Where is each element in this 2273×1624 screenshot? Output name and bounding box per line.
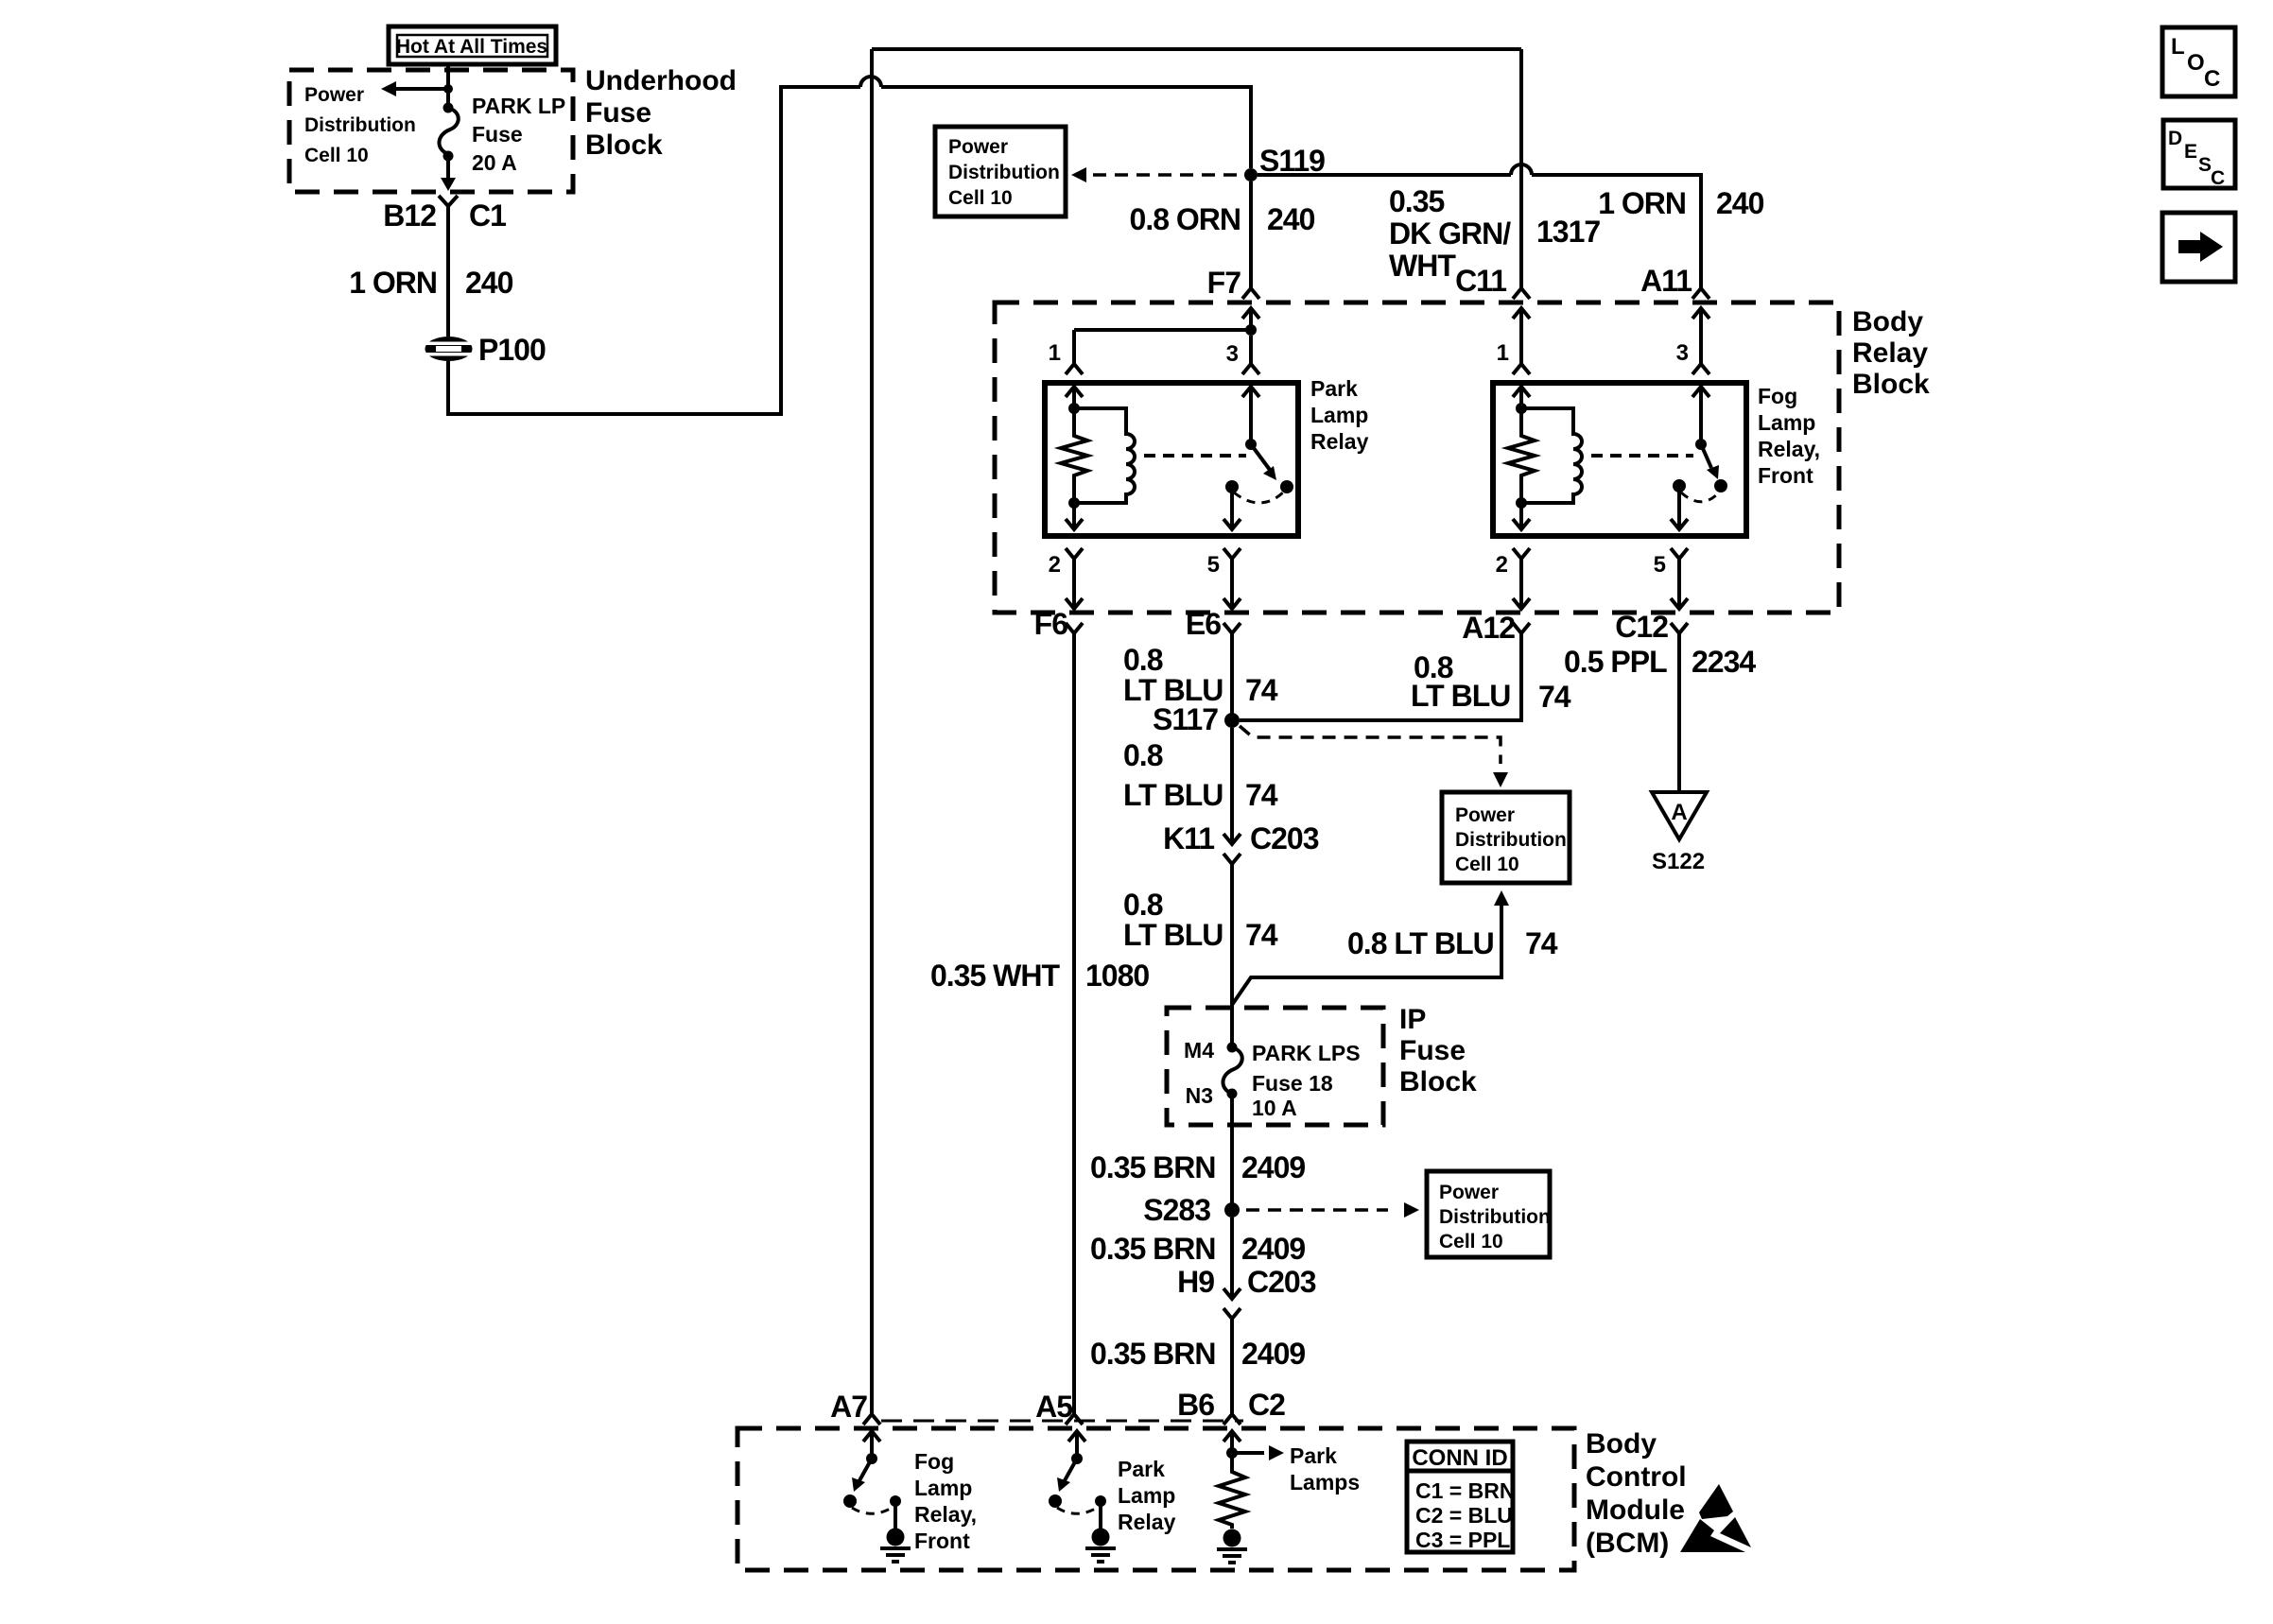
svg-text:Distribution: Distribution <box>1455 829 1567 851</box>
wire B12 to P100 <box>446 206 450 337</box>
label Fog Lamp Relay, Front (BCM) <box>914 1449 977 1553</box>
legend box LOC <box>2162 27 2235 96</box>
svg-text:Front: Front <box>1758 463 1813 488</box>
park relay pin5 node <box>1225 480 1239 493</box>
ground (A5 contact) <box>1085 1529 1116 1563</box>
svg-text:Lamps: Lamps <box>1290 1470 1360 1494</box>
wire pin5 to block edge <box>1223 548 1241 609</box>
svg-text:0.35 BRN: 0.35 BRN <box>1090 1150 1216 1184</box>
svg-text:2409: 2409 <box>1241 1337 1305 1371</box>
wire F7 inside block arrow <box>1242 308 1259 330</box>
svg-text:N3: N3 <box>1186 1083 1213 1108</box>
wire fog pin5 to block edge <box>1671 548 1688 609</box>
connector chevron A11 <box>1692 288 1709 299</box>
park lamps driver (B6/C2) <box>1223 1431 1284 1460</box>
fog relay pin5 node <box>1673 479 1686 492</box>
fog relay coil bottom node <box>1516 497 1527 509</box>
park relay actuation dashed link <box>1144 454 1246 458</box>
wire drop to pin 3 with chevron <box>1242 336 1259 374</box>
svg-text:5: 5 <box>1207 552 1220 578</box>
svg-text:240: 240 <box>1716 186 1764 220</box>
park relay switch arm <box>1251 444 1270 470</box>
svg-text:2: 2 <box>1049 552 1061 578</box>
svg-text:C1: C1 <box>469 199 506 233</box>
wire fog pin2 to block edge <box>1513 548 1530 609</box>
wire fuse output with arrow <box>446 156 450 180</box>
svg-text:Distribution: Distribution <box>1439 1206 1551 1228</box>
svg-text:K11: K11 <box>1163 821 1214 855</box>
node S283 <box>1224 1202 1240 1218</box>
wire C11 into fog pin 1 <box>1513 308 1530 374</box>
svg-text:Fog: Fog <box>1758 384 1797 408</box>
svg-text:240: 240 <box>465 266 513 300</box>
wire hop over A7 line <box>860 77 881 87</box>
svg-text:D: D <box>2168 128 2182 149</box>
svg-text:Lamp: Lamp <box>1758 410 1815 435</box>
svg-text:Hot At All Times: Hot At All Times <box>396 36 547 58</box>
svg-text:Fuse: Fuse <box>585 97 651 129</box>
svg-text:LT BLU: LT BLU <box>1411 679 1510 713</box>
svg-text:Fuse: Fuse <box>472 122 523 147</box>
svg-text:S119: S119 <box>1259 144 1325 178</box>
label Park Lamp Relay <box>1310 376 1369 454</box>
wire S117 down to K11 <box>1223 728 1241 844</box>
IP Fuse Block dashed box <box>1167 1008 1383 1125</box>
fuse PARK LPS Fuse 18 10 A <box>1223 1041 1360 1120</box>
svg-text:B6: B6 <box>1177 1388 1214 1422</box>
fog relay resistor <box>1508 408 1535 503</box>
svg-text:IP: IP <box>1399 1004 1426 1035</box>
svg-text:S283: S283 <box>1143 1193 1210 1227</box>
svg-text:A11: A11 <box>1640 264 1692 298</box>
park relay pin1 arrow inside <box>1066 387 1083 408</box>
fog relay alternate position dashed arc <box>1681 492 1718 502</box>
svg-text:Block: Block <box>585 130 663 161</box>
fog relay coil <box>1521 408 1582 503</box>
svg-text:LT BLU: LT BLU <box>1123 778 1223 812</box>
label IP Fuse Block <box>1399 1004 1477 1097</box>
label Body Control Module (BCM) <box>1586 1428 1687 1559</box>
svg-text:PARK LPS: PARK LPS <box>1252 1041 1361 1065</box>
svg-text:Front: Front <box>914 1529 970 1553</box>
in-line connector C203 chevron (H9) <box>1223 1308 1241 1425</box>
svg-text:2: 2 <box>1496 552 1508 578</box>
wire drop to pin 1 with chevron <box>1066 330 1083 374</box>
svg-text:0.35 BRN: 0.35 BRN <box>1090 1337 1216 1371</box>
svg-text:Distribution: Distribution <box>304 114 416 136</box>
box Power Distribution Cell 10 (top) <box>935 127 1066 216</box>
svg-text:0.8: 0.8 <box>1123 888 1163 922</box>
svg-text:Power: Power <box>304 84 364 106</box>
svg-text:Body: Body <box>1852 306 1923 337</box>
svg-text:Block: Block <box>1852 369 1930 400</box>
svg-text:Park: Park <box>1310 376 1358 401</box>
BCM connector dashed line <box>881 1420 1243 1423</box>
svg-text:S: S <box>2198 154 2212 176</box>
svg-text:1 ORN: 1 ORN <box>349 266 437 300</box>
svg-text:F7: F7 <box>1207 266 1241 300</box>
svg-text:(BCM): (BCM) <box>1586 1528 1669 1559</box>
dashed ref wire S117 to power distribution <box>1240 726 1501 764</box>
label 0.35 DK GRN/ WHT <box>1389 184 1511 283</box>
svg-text:1317: 1317 <box>1536 215 1600 249</box>
svg-text:Block: Block <box>1399 1066 1477 1097</box>
dashed ref arrow S283 to power distribution <box>1246 1208 1388 1212</box>
svg-text:LT BLU: LT BLU <box>1123 918 1223 952</box>
svg-text:C203: C203 <box>1247 1265 1316 1299</box>
wire E6 drop to S117 <box>1223 623 1241 720</box>
svg-text:C203: C203 <box>1250 821 1319 855</box>
svg-text:Fuse 18: Fuse 18 <box>1252 1071 1333 1096</box>
Hot At All Times box <box>389 26 556 64</box>
wire S283 down to H9 <box>1223 1218 1241 1299</box>
svg-text:Body: Body <box>1586 1428 1657 1460</box>
node S119 <box>1244 168 1258 181</box>
svg-text:74: 74 <box>1245 918 1278 952</box>
svg-text:E: E <box>2184 141 2197 163</box>
node S117 <box>1224 713 1240 728</box>
svg-text:0.5 PPL: 0.5 PPL <box>1564 645 1667 679</box>
svg-text:C: C <box>2211 167 2225 189</box>
wire A12 drop to S117 <box>1240 623 1530 720</box>
svg-text:C2 = BLU: C2 = BLU <box>1415 1503 1513 1528</box>
legend box DESC <box>2163 120 2235 189</box>
wire to S119 corner <box>881 87 1251 168</box>
svg-text:1080: 1080 <box>1085 959 1149 993</box>
wire arrow to power distribution <box>391 87 444 91</box>
svg-text:Relay: Relay <box>1118 1510 1176 1534</box>
Body Relay Block dashed box <box>995 302 1839 613</box>
park relay switch pivot <box>1245 439 1257 450</box>
Body Control Module dashed box <box>737 1428 1574 1570</box>
svg-text:Power: Power <box>1455 804 1515 826</box>
CONN ID table <box>1407 1442 1515 1552</box>
svg-text:Underhood: Underhood <box>585 65 737 96</box>
svg-text:2409: 2409 <box>1241 1232 1305 1266</box>
park relay coil <box>1074 408 1135 503</box>
ground (park lamps) <box>1217 1529 1247 1564</box>
svg-text:1: 1 <box>1497 340 1509 366</box>
ESD symbol <box>1680 1484 1751 1552</box>
resistor park lamps load <box>1219 1453 1245 1529</box>
wire top rail <box>872 47 1521 51</box>
fuse PARK LP Fuse 20 A <box>439 94 565 175</box>
svg-text:C2: C2 <box>1248 1388 1285 1422</box>
svg-text:Fog: Fog <box>914 1449 954 1474</box>
svg-text:5: 5 <box>1654 552 1666 578</box>
svg-text:Cell 10: Cell 10 <box>1439 1231 1503 1253</box>
node junction at arrow tap <box>443 84 453 94</box>
svg-text:S117: S117 <box>1153 702 1218 736</box>
svg-text:M4: M4 <box>1184 1038 1214 1063</box>
wire C12 drop to S122 <box>1671 623 1688 792</box>
wire P100 down right and up to S119 <box>448 87 860 414</box>
svg-text:PARK LP: PARK LP <box>472 94 565 118</box>
svg-text:C3 = PPL: C3 = PPL <box>1415 1528 1510 1552</box>
park relay pin3 arrow and common <box>1242 387 1259 440</box>
svg-text:S122: S122 <box>1652 849 1705 874</box>
wire N3 down to S283 <box>1230 1094 1234 1203</box>
svg-text:Park: Park <box>1290 1443 1337 1468</box>
svg-text:0.8: 0.8 <box>1123 738 1163 772</box>
label Underhood Fuse Block <box>585 65 737 161</box>
svg-text:Power: Power <box>948 136 1008 158</box>
park relay alternate position dashed arc <box>1234 492 1283 503</box>
park relay coil top node <box>1068 403 1080 414</box>
svg-text:Cell 10: Cell 10 <box>1455 854 1519 875</box>
fog relay switch contact dot <box>1714 479 1727 492</box>
svg-text:F6: F6 <box>1034 607 1068 641</box>
svg-text:0.35: 0.35 <box>1389 184 1444 218</box>
svg-text:DK GRN/: DK GRN/ <box>1389 216 1511 251</box>
svg-text:Lamp: Lamp <box>914 1476 972 1500</box>
svg-text:Park: Park <box>1118 1457 1165 1481</box>
fog relay actuation dashed link <box>1591 454 1693 458</box>
fog relay pin1 arrow inside <box>1513 387 1530 408</box>
label Power Distribution Cell 10 (underhood) <box>304 84 416 166</box>
svg-text:Distribution: Distribution <box>948 162 1060 183</box>
svg-text:A: A <box>1671 800 1687 825</box>
fog relay pin2 arrow inside <box>1513 503 1530 529</box>
svg-text:C: C <box>2204 66 2220 92</box>
svg-text:Cell 10: Cell 10 <box>948 187 1013 209</box>
wire C11 drop <box>1519 49 1523 288</box>
splice symbol S122 triangle <box>1652 792 1707 874</box>
svg-text:A12: A12 <box>1462 611 1515 645</box>
svg-text:0.8 ORN: 0.8 ORN <box>1130 202 1241 236</box>
svg-text:Module: Module <box>1586 1494 1685 1526</box>
svg-text:Lamp: Lamp <box>1118 1483 1175 1508</box>
fog relay pin5 arrow inside <box>1671 486 1688 529</box>
label Park Lamps <box>1290 1443 1360 1494</box>
label Body Relay Block <box>1852 306 1930 400</box>
svg-text:E6: E6 <box>1186 607 1221 641</box>
wire branch 0.8 LT BLU to power distribution <box>1232 905 1501 1005</box>
svg-text:10 A: 10 A <box>1252 1096 1297 1120</box>
wire A11 into fog pin 3 <box>1692 308 1709 374</box>
svg-text:B12: B12 <box>383 199 436 233</box>
svg-text:0.35 WHT: 0.35 WHT <box>930 959 1060 993</box>
node pin1/pin3 tie junction <box>1245 324 1257 336</box>
svg-text:Relay,: Relay, <box>914 1502 977 1527</box>
wire hot feed into fuse <box>446 64 450 105</box>
label Park Lamp Relay (BCM) <box>1118 1457 1176 1534</box>
svg-text:240: 240 <box>1267 202 1315 236</box>
legend box arrow <box>2162 213 2235 282</box>
ground (A7 contact) <box>880 1529 911 1563</box>
svg-text:A5: A5 <box>1035 1390 1072 1424</box>
svg-text:Relay: Relay <box>1310 429 1369 454</box>
connector chevron C11 <box>1513 288 1530 299</box>
svg-text:Relay: Relay <box>1852 337 1928 369</box>
box Power Distribution Cell 10 (bottom) <box>1427 1171 1551 1257</box>
wire A7 long drop <box>870 49 874 1414</box>
svg-text:P100: P100 <box>478 333 546 367</box>
svg-text:1: 1 <box>1049 340 1061 366</box>
fog relay switch arm <box>1701 444 1711 468</box>
switch fog lamp relay front (A7) <box>843 1431 901 1529</box>
svg-text:Lamp: Lamp <box>1310 403 1368 427</box>
svg-text:H9: H9 <box>1177 1265 1214 1299</box>
svg-text:74: 74 <box>1245 673 1278 707</box>
label Fog Lamp Relay, Front <box>1758 384 1820 488</box>
svg-text:0.8: 0.8 <box>1123 643 1163 677</box>
svg-text:Control: Control <box>1586 1461 1687 1493</box>
svg-text:A7: A7 <box>830 1390 867 1424</box>
wire F6 long drop to A5 <box>1066 623 1083 1425</box>
svg-text:C12: C12 <box>1615 610 1668 644</box>
in-line connector C203 chevron <box>1223 854 1241 1044</box>
grommet P100 <box>425 333 546 367</box>
relay box Fog Lamp Relay Front <box>1493 383 1746 536</box>
park relay pin2 arrow inside <box>1066 503 1083 529</box>
wire S119 to A11 <box>1258 173 1511 177</box>
svg-text:2409: 2409 <box>1241 1150 1305 1184</box>
relay box Park Lamp Relay <box>1045 383 1298 536</box>
wire to A11 corner <box>1532 175 1701 288</box>
svg-text:2234: 2234 <box>1692 645 1756 679</box>
svg-text:0.35 BRN: 0.35 BRN <box>1090 1232 1216 1266</box>
svg-text:Fuse: Fuse <box>1399 1035 1466 1066</box>
svg-text:0.8 LT BLU: 0.8 LT BLU <box>1347 926 1494 960</box>
svg-text:CONN ID: CONN ID <box>1412 1445 1507 1471</box>
svg-text:L: L <box>2171 34 2185 60</box>
svg-text:C1 = BRN: C1 = BRN <box>1415 1478 1515 1503</box>
park relay pin5 arrow inside <box>1223 487 1241 529</box>
svg-text:3: 3 <box>1226 341 1239 367</box>
wire hop over C11 line <box>1511 164 1532 175</box>
wire pin2 to block edge <box>1066 548 1083 609</box>
fog relay coil top node <box>1516 403 1527 414</box>
svg-text:WHT: WHT <box>1389 249 1456 283</box>
park relay coil bottom node <box>1068 497 1080 509</box>
wire tie to pin 1 <box>1074 328 1251 332</box>
connector chevron B12/C1 <box>439 196 458 206</box>
connector chevron F7 <box>1242 288 1259 299</box>
connector chevron A7 at BCM <box>863 1414 880 1425</box>
svg-text:Power: Power <box>1439 1182 1499 1203</box>
Underhood Fuse Block dashed box <box>289 70 573 192</box>
svg-text:1 ORN: 1 ORN <box>1598 186 1686 220</box>
svg-text:74: 74 <box>1525 926 1558 960</box>
svg-text:O: O <box>2187 50 2205 76</box>
svg-text:Cell 10: Cell 10 <box>304 145 369 166</box>
dashed ref arrow S119 to power distribution <box>1091 173 1237 177</box>
svg-text:Relay,: Relay, <box>1758 437 1820 461</box>
fog relay pin3 arrow and common <box>1692 387 1709 440</box>
svg-text:20 A: 20 A <box>472 150 517 175</box>
svg-text:C11: C11 <box>1455 264 1506 298</box>
wire S119 to F7 <box>1249 181 1253 288</box>
park relay switch contact dot <box>1280 480 1293 493</box>
switch park lamp relay (A5) <box>1049 1431 1106 1529</box>
svg-text:3: 3 <box>1676 340 1689 366</box>
box Power Distribution Cell 10 (middle) <box>1442 792 1570 883</box>
svg-text:74: 74 <box>1538 680 1571 714</box>
svg-text:74: 74 <box>1245 778 1278 812</box>
fog relay switch pivot <box>1695 439 1707 450</box>
park relay resistor <box>1061 408 1087 503</box>
